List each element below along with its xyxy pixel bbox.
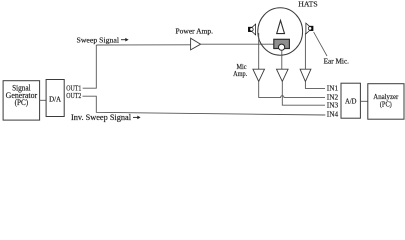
box: Signal Generator (PC) xyxy=(3,81,40,120)
ear mic right xyxy=(306,23,313,34)
svg-text:Amp.: Amp. xyxy=(233,70,247,78)
svg-text:Sweep Signal: Sweep Signal xyxy=(77,35,120,44)
box: D/A converter xyxy=(46,80,64,117)
svg-text:(PC): (PC) xyxy=(380,100,392,109)
wire: T1 to IN2 with hop over T2 vertical xyxy=(259,82,325,98)
wire: OUT2 down to inverse sweep line xyxy=(83,96,326,115)
wire: right ear mic down to amp T3 xyxy=(304,33,306,69)
head: HATS circle xyxy=(258,8,303,55)
wire: power amp to mouth loudspeaker xyxy=(201,43,274,45)
svg-text:IN4: IN4 xyxy=(327,110,339,119)
wire: mouth speaker down to amp T2 xyxy=(281,50,283,69)
svg-text:Inv. Sweep Signal: Inv. Sweep Signal xyxy=(71,113,132,122)
wire: left ear mic down to amp T1 xyxy=(258,33,260,69)
wire: sweep line to power amp xyxy=(96,44,190,46)
mouth cone triangle xyxy=(277,20,285,33)
wire: T2 to IN3 xyxy=(282,82,325,106)
svg-text:HATS: HATS xyxy=(298,0,317,8)
amplifier T3 xyxy=(300,69,311,81)
ear mic left xyxy=(248,24,255,35)
svg-text:IN1: IN1 xyxy=(327,83,339,92)
wire: A/D to Analyzer xyxy=(360,100,367,102)
amplifier T1 xyxy=(253,69,265,81)
wire: Signal Generator to D/A xyxy=(40,99,47,101)
svg-text:(PC): (PC) xyxy=(15,98,29,107)
box: A/D converter xyxy=(341,83,360,118)
mouth loudspeaker box xyxy=(274,39,290,50)
amplifier T2 xyxy=(277,69,289,81)
svg-text:Power Amp.: Power Amp. xyxy=(176,26,214,35)
svg-text:OUT1: OUT1 xyxy=(66,84,81,92)
amplifier: power amp triangle xyxy=(191,38,201,50)
leader line to Ear Mic. label xyxy=(314,32,327,56)
svg-text:A/D: A/D xyxy=(345,96,357,105)
svg-text:IN3: IN3 xyxy=(327,100,339,109)
box: Analyzer (PC) xyxy=(368,84,404,120)
svg-text:OUT2: OUT2 xyxy=(66,92,81,100)
svg-text:Ear Mic.: Ear Mic. xyxy=(324,56,350,65)
label: Mic Amp. xyxy=(233,63,247,78)
wire: T3 to IN1 xyxy=(305,82,325,89)
svg-text:D/A: D/A xyxy=(49,94,62,103)
wire: OUT1 up to sweep line xyxy=(83,45,97,88)
